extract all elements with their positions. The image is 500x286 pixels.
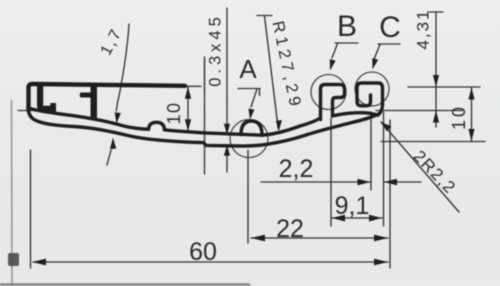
arrow 22 right xyxy=(374,235,388,242)
svg-text:2,2: 2,2 xyxy=(279,155,314,183)
leader 1,7 upper xyxy=(116,24,129,111)
extension line: 60 left (x33) xyxy=(30,150,32,268)
arrow leader 2R2,2 (up-left) xyxy=(381,122,392,131)
arrow leader 1,7 upper (down) xyxy=(115,112,121,124)
arrow 2,2 left (points right) xyxy=(358,179,371,186)
leader R127,29 top serif xyxy=(257,15,272,17)
extension line: 22 left (x248) xyxy=(247,150,249,243)
leader A xyxy=(251,89,257,107)
ledge on rib (filled) xyxy=(80,93,91,98)
arrow leader A (down) xyxy=(248,109,254,120)
svg-text:10: 10 xyxy=(449,104,469,130)
arrow 10-right bottom (down) xyxy=(468,129,474,141)
strip top surface right part rising to hook B xyxy=(262,119,319,135)
extension line right: strip bottom level (y141.5) xyxy=(381,141,485,143)
small bump on strip xyxy=(149,122,165,130)
arrow 60 right xyxy=(374,259,388,266)
strip top surface middle (continues under node A bump) xyxy=(165,130,263,135)
dimension line 9,1 (y218) xyxy=(332,217,382,219)
arrow leader B (down) xyxy=(330,59,336,71)
svg-text:60: 60 xyxy=(189,238,217,266)
scan artifact: bottom edge xyxy=(0,283,250,286)
extension line right: hook top level (y87) xyxy=(408,86,480,88)
dimension line 2,2 right piece (y182) xyxy=(384,181,421,183)
arrows 0.3x45 at strip (thickness) xyxy=(224,124,230,135)
svg-text:0.3x45: 0.3x45 xyxy=(206,13,224,87)
bump at node A xyxy=(241,121,262,135)
extension line: 2,2 left from hook C inner leg (x371) xyxy=(370,112,372,190)
arrow 2,2 right (points left) xyxy=(384,179,397,186)
scan artifact: left edge line xyxy=(8,100,19,286)
hook C with right leg xyxy=(357,83,383,114)
arrow leader C (down) xyxy=(372,58,378,70)
strip top surface from hook B to right tip xyxy=(333,113,379,116)
extension line: 22/60 right (x390) xyxy=(389,120,391,268)
dimension line 22 (y238) xyxy=(251,237,388,239)
arrow 10-left top (up) xyxy=(185,87,191,99)
arrow 9,1 left xyxy=(332,215,345,222)
overline for 0.3 xyxy=(204,57,206,91)
detail circle B xyxy=(311,75,346,110)
dimension line 10 left (x188) xyxy=(187,87,189,132)
leader C xyxy=(375,45,381,59)
svg-text:22: 22 xyxy=(276,215,304,243)
arrow 10-right top (up) xyxy=(468,88,474,100)
svg-text:A: A xyxy=(239,54,257,84)
extension line: 2,2/9,1 right from hook C right leg (x383) xyxy=(383,112,385,226)
detail circle C xyxy=(355,72,389,106)
dimension line 60 (y262) xyxy=(33,261,388,263)
leader B xyxy=(332,44,338,59)
serif 4,31 top xyxy=(430,11,444,13)
strip top surface left part xyxy=(30,109,149,130)
dimension line 4,31 (x436) xyxy=(435,12,437,127)
svg-text:10: 10 xyxy=(164,101,184,124)
svg-text:B: B xyxy=(337,10,357,43)
left J-hook under plate (filled) xyxy=(37,84,56,113)
hook B xyxy=(321,85,345,120)
arrow 4,31 upper (down, outside) xyxy=(433,75,439,87)
detail circle A xyxy=(230,120,268,158)
arrow 4,31 lower (up, outside) xyxy=(433,111,439,123)
extension line right: hook inner level (y110.5) xyxy=(376,110,462,112)
svg-text:C: C xyxy=(379,11,401,44)
arrow 22 left xyxy=(251,235,265,242)
arrow 60 left xyxy=(32,259,46,266)
extension line: below strip step (x205) xyxy=(204,57,206,174)
leader 2R2,2 xyxy=(381,122,459,212)
leader line 0.3x45 (x227) xyxy=(226,8,228,128)
profile left wall bottom corner into strip bottom surface xyxy=(28,108,380,146)
svg-text:9,1: 9,1 xyxy=(335,192,370,220)
arrow leader R127,29 (down) xyxy=(276,120,282,131)
arrow 10-left bottom (down) xyxy=(185,119,191,131)
label C underline xyxy=(378,43,400,45)
left rib under plate (filled) xyxy=(91,85,98,118)
extension line: 9,1 left from hook B inner leg (x331) xyxy=(330,118,332,226)
arrow 9,1 right xyxy=(369,215,382,222)
label A underline xyxy=(238,88,260,90)
svg-text:4,31: 4,31 xyxy=(413,8,432,49)
extension line: 10 left top (y86.5) xyxy=(183,85,201,87)
leader R127,29 xyxy=(265,16,279,129)
dimension line 10 right (x471.5) xyxy=(471,87,473,142)
thickness tick line at left wall (y110.5) xyxy=(18,110,48,112)
profile top plate and left edge xyxy=(29,84,186,110)
arrow leader 1,7 lower (up) xyxy=(110,138,116,150)
leader 1,7 lower tail xyxy=(107,150,111,165)
label B underline xyxy=(335,42,358,44)
dimension line 2,2 left piece (y182) xyxy=(261,181,370,183)
